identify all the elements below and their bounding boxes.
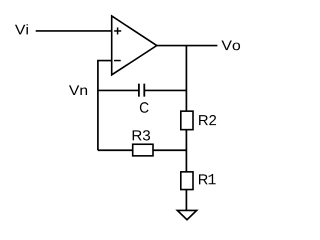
node Vo label xyxy=(221,41,240,51)
node Vn label xyxy=(69,85,87,95)
wire Vn branch to R3 xyxy=(98,149,133,151)
node Vi label xyxy=(15,24,28,34)
label R2 xyxy=(199,115,216,125)
wire capacitor to output column xyxy=(144,89,186,91)
op-amp minus input marker xyxy=(114,60,121,62)
wire output to Vo xyxy=(157,45,218,47)
resistor R1 xyxy=(181,172,193,190)
resistor R3 xyxy=(133,144,153,156)
op-amp U1 xyxy=(112,16,157,75)
label R1 digit xyxy=(209,174,216,184)
capacitor C xyxy=(139,84,144,97)
wire R1 to ground xyxy=(185,190,187,211)
wire R2 to R1 xyxy=(185,130,187,172)
value label C xyxy=(140,102,149,113)
label R3 xyxy=(133,130,150,140)
wire R3 to output column xyxy=(153,149,186,151)
resistor R2 xyxy=(181,111,193,130)
wire Vn to capacitor xyxy=(98,89,139,91)
op-amp plus input marker xyxy=(114,27,121,34)
label R1 xyxy=(199,174,208,184)
ground xyxy=(177,210,196,219)
wire Vi input xyxy=(36,30,112,32)
wire output node down to R2 xyxy=(185,46,187,112)
wire minus input to left column xyxy=(98,61,112,151)
